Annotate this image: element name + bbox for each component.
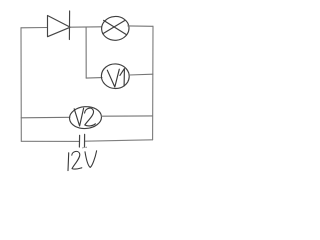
wire V1 to right rail [129, 73, 153, 76]
wire diode to lamp [70, 26, 101, 28]
wire V2 branch left [21, 116, 70, 119]
voltmeter V2 [69, 106, 102, 130]
wire branch vertical to V1 [85, 27, 87, 78]
wire right vertical rail [152, 26, 154, 140]
label 12V text [68, 147, 97, 170]
battery B1 plate right [84, 134, 86, 147]
voltmeter V1 [101, 63, 130, 89]
wire branch horizontal to V1 [86, 77, 102, 80]
lamp L1 [101, 16, 130, 42]
label V1 [107, 69, 124, 87]
battery B1 plate left [78, 135, 80, 147]
label V2 [74, 108, 95, 126]
wire bottom right segment [85, 140, 152, 141]
wire bottom left segment [21, 140, 79, 142]
wire lamp to right rail [128, 25, 153, 27]
wire left vertical [20, 28, 22, 142]
diode D1 [48, 11, 71, 40]
wire V2 to right rail [101, 115, 152, 117]
wire top left segment [21, 27, 47, 29]
